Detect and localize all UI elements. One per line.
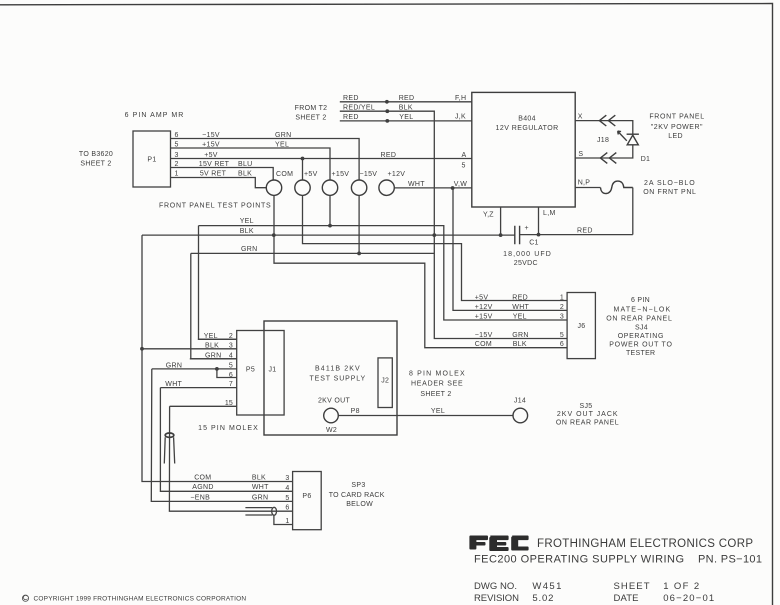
svg-text:15 PIN MOLEX: 15 PIN MOLEX (198, 425, 258, 432)
svg-text:TO B3620: TO B3620 (79, 151, 113, 158)
svg-text:GRN: GRN (241, 246, 257, 253)
svg-text:RED: RED (512, 294, 528, 301)
svg-text:A: A (462, 152, 467, 159)
svg-text:OPERATING: OPERATING (618, 333, 664, 340)
svg-text:L,M: L,M (543, 210, 556, 217)
svg-text:5: 5 (560, 332, 564, 339)
svg-text:B404: B404 (518, 116, 536, 123)
svg-text:+15V: +15V (475, 314, 493, 321)
svg-text:BLK: BLK (399, 104, 413, 111)
svg-text:GRN: GRN (205, 352, 221, 359)
svg-text:−15V: −15V (202, 132, 220, 139)
svg-text:BLK: BLK (238, 171, 252, 178)
svg-text:5.02: 5.02 (532, 593, 553, 604)
svg-text:WHT: WHT (165, 381, 182, 388)
svg-text:15: 15 (225, 400, 233, 407)
svg-text:FRONT PANEL: FRONT PANEL (649, 114, 704, 121)
svg-text:+5V: +5V (304, 171, 318, 178)
svg-text:MATE−N−LOK: MATE−N−LOK (614, 307, 671, 314)
svg-text:RED: RED (381, 152, 397, 159)
svg-text:YEL: YEL (240, 218, 254, 225)
svg-text:25VDC: 25VDC (514, 260, 538, 267)
svg-text:DATE: DATE (614, 593, 639, 604)
svg-text:WHT: WHT (512, 304, 529, 311)
svg-text:+5V: +5V (475, 294, 489, 301)
svg-text:15V RET: 15V RET (199, 161, 230, 168)
svg-text:GRN: GRN (166, 362, 182, 369)
svg-text:SHEET 2: SHEET 2 (295, 115, 326, 122)
svg-text:TEST SUPPLY: TEST SUPPLY (310, 375, 366, 382)
svg-text:J2: J2 (381, 378, 389, 385)
svg-text:8 PIN MOLEX: 8 PIN MOLEX (409, 370, 465, 377)
svg-text:REVISION: REVISION (474, 593, 519, 604)
svg-text:4: 4 (285, 485, 289, 492)
svg-text:BELOW: BELOW (346, 501, 373, 508)
svg-text:LED: LED (668, 133, 683, 140)
svg-text:RED: RED (343, 114, 359, 121)
svg-text:DWG NO.: DWG NO. (474, 581, 517, 592)
svg-text:2: 2 (175, 161, 179, 168)
svg-text:6: 6 (229, 372, 233, 379)
svg-text:SHEET: SHEET (614, 581, 650, 592)
svg-text:2: 2 (560, 304, 564, 311)
svg-text:V,W: V,W (454, 181, 468, 188)
svg-text:5: 5 (285, 495, 289, 502)
svg-text:2A SLO−BLO: 2A SLO−BLO (644, 180, 695, 187)
svg-text:3: 3 (229, 342, 233, 349)
svg-text:ON REAR PANEL: ON REAR PANEL (556, 420, 619, 427)
svg-text:FRONT PANEL TEST POINTS: FRONT PANEL TEST POINTS (159, 203, 271, 210)
svg-text:2: 2 (229, 333, 233, 340)
svg-text:BLU: BLU (238, 161, 253, 168)
svg-text:+12V: +12V (475, 304, 493, 311)
svg-text:SHEET 2: SHEET 2 (420, 391, 451, 398)
svg-text:+12V: +12V (388, 171, 406, 178)
svg-text:3: 3 (560, 314, 564, 321)
svg-text:6: 6 (285, 505, 289, 512)
svg-text:RED: RED (343, 95, 359, 102)
svg-text:+5V: +5V (204, 152, 218, 159)
svg-text:06−20−01: 06−20−01 (663, 593, 714, 604)
svg-text:SJ5: SJ5 (580, 403, 593, 410)
svg-text:S: S (578, 151, 583, 158)
svg-text:SP3: SP3 (351, 482, 365, 489)
svg-text:2KV OUT: 2KV OUT (318, 398, 350, 405)
svg-text:7: 7 (229, 381, 233, 388)
svg-text:ON FRNT PNL: ON FRNT PNL (643, 189, 696, 196)
svg-text:YEL: YEL (431, 408, 445, 415)
svg-text:2KV OUT JACK: 2KV OUT JACK (557, 411, 618, 418)
svg-text:3: 3 (175, 152, 179, 159)
svg-text:5V RET: 5V RET (200, 171, 227, 178)
svg-text:BLK: BLK (513, 341, 527, 348)
svg-text:J14: J14 (514, 398, 526, 405)
svg-text:6: 6 (560, 341, 564, 348)
svg-text:YEL: YEL (513, 314, 527, 321)
svg-text:W451: W451 (532, 581, 561, 592)
svg-text:RED/YEL: RED/YEL (343, 104, 375, 111)
svg-text:+15V: +15V (202, 142, 220, 149)
svg-text:−ENB: −ENB (190, 494, 210, 501)
svg-text:5: 5 (175, 142, 179, 149)
svg-text:6 PIN: 6 PIN (631, 297, 650, 304)
svg-text:18,000 UFD: 18,000 UFD (503, 251, 551, 258)
svg-text:BLK: BLK (252, 474, 266, 481)
svg-text:6 PIN AMP MR: 6 PIN AMP MR (125, 112, 184, 119)
svg-text:WHT: WHT (408, 181, 425, 188)
svg-text:POWER OUT TO: POWER OUT TO (609, 342, 672, 349)
svg-text:WHT: WHT (252, 484, 269, 491)
svg-text:FROTHINGHAM ELECTRONICS CORP: FROTHINGHAM ELECTRONICS CORP (537, 538, 753, 550)
svg-text:GRN: GRN (512, 332, 528, 339)
svg-text:X: X (578, 113, 583, 120)
svg-text:1 OF 2: 1 OF 2 (663, 581, 699, 592)
svg-text:4: 4 (229, 352, 233, 359)
svg-text:5: 5 (462, 162, 466, 169)
svg-text:TO CARD RACK: TO CARD RACK (329, 492, 385, 499)
svg-text:AGND: AGND (192, 484, 213, 491)
svg-text:SHEET 2: SHEET 2 (80, 161, 111, 168)
svg-text:12V REGULATOR: 12V REGULATOR (496, 125, 559, 132)
svg-text:+: + (525, 225, 529, 232)
svg-text:BLK: BLK (240, 228, 254, 235)
svg-text:J,K: J,K (455, 114, 466, 121)
svg-text:D1: D1 (641, 156, 651, 163)
svg-text:1: 1 (560, 294, 564, 301)
svg-text:COPYRIGHT 1999 FROTHINGHAM ELE: COPYRIGHT 1999 FROTHINGHAM ELECTRONICS C… (34, 596, 247, 603)
svg-text:GRN: GRN (252, 494, 268, 501)
svg-text:C: C (23, 595, 28, 602)
svg-text:P5: P5 (246, 367, 255, 374)
svg-text:6: 6 (175, 132, 179, 139)
svg-text:COM: COM (475, 341, 492, 348)
svg-text:SJ4: SJ4 (635, 325, 648, 332)
svg-text:J1: J1 (269, 367, 277, 374)
svg-text:"2KV POWER": "2KV POWER" (651, 124, 703, 131)
svg-text:YEL: YEL (275, 142, 289, 149)
svg-text:+15V: +15V (332, 171, 350, 178)
svg-text:J18: J18 (597, 137, 609, 144)
svg-text:FROM T2: FROM T2 (295, 105, 328, 112)
svg-text:C1: C1 (529, 240, 539, 247)
svg-text:RED: RED (399, 95, 415, 102)
svg-text:N,P: N,P (578, 180, 591, 187)
svg-text:W2: W2 (326, 427, 337, 434)
svg-text:COM: COM (194, 474, 211, 481)
svg-text:FEC200 OPERATING SUPPLY WIRING: FEC200 OPERATING SUPPLY WIRING (474, 554, 684, 566)
svg-text:P1: P1 (147, 157, 156, 164)
svg-text:−15V: −15V (360, 171, 378, 178)
svg-text:5: 5 (229, 362, 233, 369)
svg-text:GRN: GRN (275, 132, 291, 139)
svg-text:BLK: BLK (205, 342, 219, 349)
svg-text:HEADER SEE: HEADER SEE (411, 381, 463, 388)
svg-text:YEL: YEL (204, 333, 218, 340)
svg-text:B411B 2KV: B411B 2KV (315, 366, 360, 373)
svg-text:Y,Z: Y,Z (483, 212, 494, 219)
svg-text:COM: COM (276, 171, 293, 178)
svg-text:RED: RED (577, 228, 593, 235)
svg-text:3: 3 (285, 475, 289, 482)
svg-text:P6: P6 (302, 493, 311, 500)
svg-text:J6: J6 (578, 323, 586, 330)
svg-text:P8: P8 (351, 408, 360, 415)
svg-text:−15V: −15V (475, 332, 493, 339)
svg-text:F,H: F,H (455, 95, 466, 102)
svg-text:1: 1 (175, 171, 179, 178)
svg-text:PN. PS−101: PN. PS−101 (698, 554, 762, 566)
svg-text:ON REAR PANEL: ON REAR PANEL (606, 316, 672, 323)
svg-text:YEL: YEL (399, 114, 413, 121)
svg-text:TESTER: TESTER (626, 350, 655, 357)
